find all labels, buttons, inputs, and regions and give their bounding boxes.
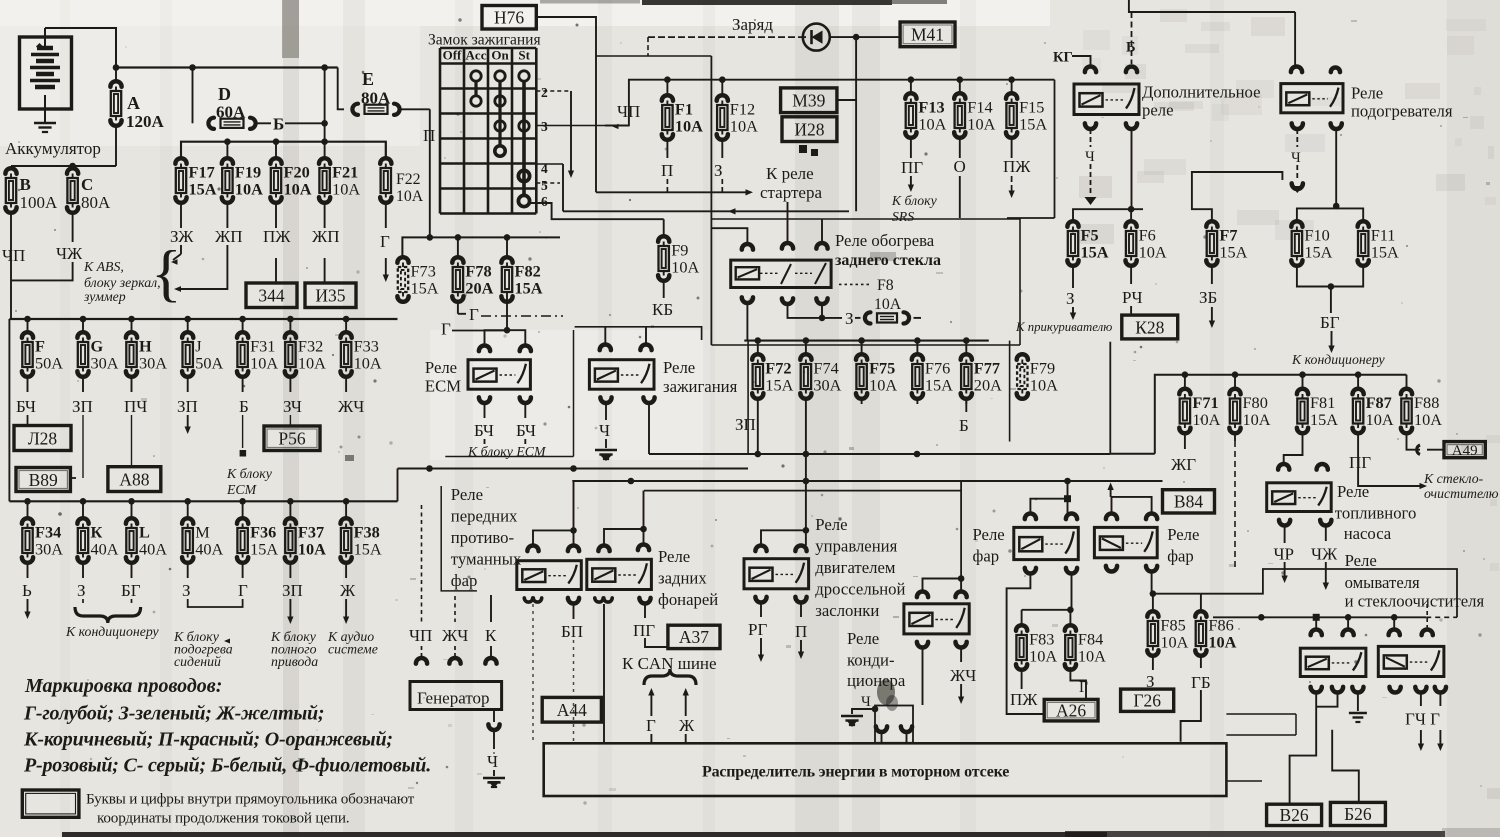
ignition table header Off Acc On St	[443, 48, 531, 63]
svg-text:З: З	[714, 161, 723, 180]
box А37	[668, 625, 720, 648]
svg-text:Распределитель энергии в мотор: Распределитель энергии в моторном отсеке	[702, 764, 1009, 781]
op relay Реле зажигания	[589, 360, 654, 390]
wire ЗП under F72	[757, 404, 759, 454]
frame ЕСМ block	[445, 330, 573, 457]
svg-text:Off: Off	[443, 48, 462, 63]
svg-text:БГ: БГ	[1320, 313, 1340, 332]
label Реле кондиционера	[847, 629, 906, 690]
svg-text:Л28: Л28	[28, 428, 58, 448]
wire diode junction down	[855, 37, 857, 211]
label Маркировка проводов	[24, 675, 222, 697]
svg-text:St: St	[518, 48, 530, 63]
svg-text:Н76: Н76	[494, 8, 524, 28]
label ПЖ А26	[1010, 690, 1038, 709]
ground зажигания	[595, 450, 617, 461]
op relay Реле кондиционера	[904, 604, 969, 634]
relay pin arcs топливного bottom	[1279, 520, 1331, 526]
fuse F75 10А	[856, 341, 867, 404]
wire РГ down	[760, 603, 762, 617]
fuse F71 10А	[1179, 375, 1190, 441]
frame right edge SRS block	[1007, 80, 1055, 218]
svg-text:системе: системе	[328, 642, 378, 657]
bus row1 left	[9, 316, 397, 323]
svg-text:ЧР: ЧР	[1274, 545, 1295, 564]
svg-text:В89: В89	[29, 470, 58, 490]
box А44	[542, 697, 601, 722]
wire КГ to relay pin1	[1072, 56, 1091, 65]
label ЧЖ	[56, 244, 83, 263]
arrow ЧР	[1281, 562, 1287, 583]
label F86 10A	[1208, 616, 1236, 652]
relay pin arcs управления top	[755, 546, 806, 552]
svg-text:Реле: Реле	[425, 358, 457, 377]
label A 120A	[126, 93, 165, 131]
label F10 15A	[1304, 226, 1332, 262]
wire БП down	[573, 604, 575, 619]
note К блоку полного привода	[270, 629, 318, 669]
wire F80 down	[1234, 441, 1236, 570]
note К блоку SRS	[891, 193, 938, 224]
label О under F14	[954, 157, 966, 176]
wire F84 to А26 Г	[1070, 667, 1086, 699]
bus F5 F6	[1073, 206, 1143, 222]
label H	[139, 337, 167, 373]
svg-text:стартера: стартера	[760, 183, 822, 202]
label ЗП under F72	[735, 415, 756, 434]
wire Б under F77	[965, 398, 967, 412]
svg-text:фар: фар	[451, 571, 478, 590]
svg-text:М39: М39	[792, 91, 825, 111]
note К блоку ЕСМ	[467, 444, 547, 459]
svg-text:КГ: КГ	[1053, 50, 1073, 66]
svg-text:ЕСМ: ЕСМ	[425, 377, 461, 396]
wire Ч ground кондиционера	[852, 694, 878, 714]
wire К28 area down	[1109, 342, 1111, 454]
svg-text:Реле: Реле	[847, 629, 879, 648]
label F15	[1019, 98, 1047, 134]
wire задних left pin down	[603, 604, 605, 743]
label F88	[1414, 393, 1442, 429]
wire О down	[959, 176, 961, 218]
marks under И28	[799, 145, 818, 156]
wire БЧ to Л28	[27, 415, 29, 426]
label З near F8	[845, 309, 854, 328]
svg-text:10А: 10А	[1192, 410, 1220, 429]
label Аккумулятор	[5, 139, 101, 158]
label F5 15A	[1081, 226, 1109, 262]
svg-text:конди-: конди-	[847, 651, 895, 670]
wire ЧР down	[1284, 526, 1286, 543]
wire Ч dashed Дополнительное	[1085, 129, 1097, 205]
fuse F87 10А	[1353, 375, 1364, 441]
fuse C 80A	[67, 166, 78, 242]
svg-text:А88: А88	[119, 469, 149, 489]
svg-text:ЗП: ЗП	[282, 581, 303, 600]
fuse F15 15А	[1006, 80, 1017, 158]
label К CAN шине	[622, 654, 717, 673]
fuse F81 15А	[1297, 375, 1308, 441]
note К блоку подогрева сидений	[173, 629, 233, 669]
svg-text:F8: F8	[877, 277, 894, 294]
svg-text:15А: 15А	[1304, 243, 1332, 262]
label Реле управления двигателем дроссельной заслонки	[815, 515, 905, 620]
fuse F7 15A	[1206, 221, 1217, 284]
svg-text:ЧЖ: ЧЖ	[56, 244, 83, 263]
label Реле фар 2	[1167, 525, 1199, 566]
label РГ	[748, 620, 767, 639]
box M41	[900, 22, 955, 47]
box А88	[108, 467, 161, 492]
wire ПГ down	[644, 604, 646, 618]
ignition terminal 2	[536, 85, 571, 100]
label Реле передних противотуманных фар	[451, 485, 522, 590]
label Реле зажигания	[663, 358, 738, 396]
charge indicator lamp (diode)	[803, 24, 830, 51]
svg-text:ПГ: ПГ	[901, 158, 923, 177]
arrow ЗП полного привода	[287, 599, 293, 624]
fuse F13 10А	[905, 80, 916, 158]
arrow ПГ to SRS	[908, 176, 914, 192]
wire фар2 arrow feed	[1107, 483, 1151, 514]
svg-text:дроссельной: дроссельной	[815, 580, 905, 599]
svg-text:D: D	[218, 84, 231, 104]
svg-text:фонарей: фонарей	[658, 590, 718, 609]
fuse F11 15A	[1358, 221, 1369, 271]
arrow РГ	[758, 638, 764, 662]
fuse B 100A	[5, 166, 16, 244]
label F81	[1310, 393, 1338, 429]
relay pin arcs фар2 top	[1106, 514, 1157, 520]
label З under F5	[1066, 289, 1075, 308]
wire to fuse E	[338, 68, 344, 110]
label ПГ under F13	[901, 158, 923, 177]
relay pin arcs подогревателя top	[1291, 67, 1340, 73]
label F6 10A	[1139, 226, 1167, 262]
label ЧР	[1274, 545, 1295, 564]
fuse F1 10A	[662, 80, 673, 158]
relay pin arcs обогрева top	[742, 243, 828, 250]
svg-text:ЖП: ЖП	[312, 227, 340, 246]
svg-text:ЗП: ЗП	[177, 397, 198, 416]
fuse F85 10A	[1147, 594, 1158, 670]
box Распределитель энергии	[544, 743, 1227, 796]
artifact smudge центр	[877, 679, 898, 711]
svg-text:120А: 120А	[126, 112, 165, 131]
label F82 15A	[515, 262, 543, 298]
wire terminal4 down	[562, 164, 564, 211]
fuse F 50А	[22, 319, 33, 392]
svg-text:40А: 40А	[139, 540, 167, 559]
label F36	[250, 523, 278, 559]
label ЧЖ	[1311, 545, 1338, 564]
fuse D 60A	[208, 118, 271, 129]
svg-text:10А: 10А	[1160, 633, 1188, 652]
fuse F88 10А	[1401, 375, 1412, 441]
svg-text:ЧП: ЧП	[409, 626, 432, 645]
svg-text:реле: реле	[1142, 101, 1174, 120]
wire F74 down	[805, 404, 807, 481]
box В89	[16, 468, 70, 492]
svg-text:Г: Г	[646, 716, 656, 735]
arrow К блоку подогрева	[224, 639, 230, 644]
svg-text:80А: 80А	[81, 193, 111, 212]
svg-text:Ч: Ч	[861, 694, 871, 710]
svg-text:ЖЧ: ЖЧ	[442, 626, 468, 645]
svg-text:КБ: КБ	[652, 300, 673, 319]
svg-text:Генератор: Генератор	[417, 689, 490, 708]
label F34	[35, 523, 63, 559]
svg-text:зажигания: зажигания	[663, 377, 738, 396]
box К28	[1122, 315, 1178, 339]
wire РЧ to К28	[1130, 306, 1132, 315]
bus F85 F86	[1153, 593, 1201, 595]
svg-text:On: On	[491, 48, 509, 63]
brace К кондиционеру	[75, 607, 141, 623]
label Ч генератор	[487, 752, 498, 771]
fuse E 80A	[352, 104, 429, 115]
label БЧ left	[474, 421, 494, 440]
arrow Г right	[1437, 693, 1443, 751]
svg-text:10А: 10А	[1243, 410, 1271, 429]
arrow Ж аудио	[343, 599, 349, 624]
svg-text:10А: 10А	[1139, 243, 1167, 262]
svg-text:Е: Е	[362, 69, 374, 89]
label ЗП row1a	[72, 397, 93, 416]
label F9 10A	[671, 241, 699, 277]
label ЖП second	[312, 227, 340, 246]
svg-text:15А: 15А	[515, 279, 543, 298]
wire Г under F78	[458, 305, 479, 324]
label F38	[354, 523, 382, 559]
arrow J down	[185, 415, 191, 434]
svg-text:Буквы и цифры внутри прямоугол: Буквы и цифры внутри прямоугольника обоз…	[86, 791, 415, 808]
label ПЖ	[263, 227, 291, 246]
relay pin arcs управления bottom	[755, 597, 806, 603]
svg-text:М41: М41	[911, 25, 944, 45]
ignition terminal 5	[536, 178, 560, 193]
svg-text:подогревателя: подогревателя	[1351, 102, 1453, 121]
frame right К28 drop	[1009, 341, 1011, 442]
svg-text:сидений: сидений	[174, 654, 221, 669]
label Б node top	[1126, 40, 1136, 56]
node main bus top	[113, 64, 338, 71]
fuse М 40А	[182, 501, 193, 578]
op relay Реле подогревателя	[1281, 84, 1343, 113]
svg-text:З: З	[1066, 289, 1075, 308]
relay pin arcs задних bottom	[595, 598, 651, 604]
wire фар1 pin feed	[1030, 481, 1071, 513]
legend text	[86, 791, 415, 827]
svg-text:30А: 30А	[813, 376, 841, 395]
wire Б26 step	[1332, 730, 1359, 803]
wire задних pin feed	[604, 491, 647, 545]
label F31	[250, 337, 278, 373]
label F8 10A	[874, 277, 902, 313]
label ЧП	[2, 246, 25, 265]
svg-text:БЧ: БЧ	[16, 397, 36, 416]
label БП	[561, 622, 583, 641]
fuse F72 15А	[752, 341, 763, 404]
relay pin arcs обогрева bottom	[742, 297, 828, 304]
svg-text:10А: 10А	[918, 115, 946, 134]
note К ABS блоку зеркал зуммер	[83, 259, 161, 304]
svg-text:15А: 15А	[354, 540, 382, 559]
bus F1 F12	[629, 76, 1055, 126]
arrow БГ down	[1328, 331, 1334, 353]
bus F71 row	[1155, 371, 1407, 453]
wire main y481	[572, 478, 1162, 485]
label РЧ under F6	[1122, 288, 1143, 307]
arrow ГЧ	[1418, 693, 1424, 751]
box Б26	[1330, 802, 1385, 825]
label ЗЖ	[170, 227, 194, 246]
svg-text:Реле: Реле	[1345, 551, 1377, 570]
svg-text:омывателя: омывателя	[1345, 573, 1420, 592]
svg-text:5: 5	[541, 178, 548, 193]
svg-text:А26: А26	[1056, 700, 1086, 720]
svg-text:топливного: топливного	[1335, 504, 1417, 523]
fuse A 120A	[110, 68, 121, 167]
op relay Реле противотуманных фар	[517, 561, 582, 590]
note К прикуривателю	[1015, 320, 1112, 334]
svg-text:фар: фар	[1167, 547, 1194, 566]
label Замок зажигания	[428, 32, 541, 49]
svg-text:Аккумулятор: Аккумулятор	[5, 139, 101, 158]
bus row2 left	[9, 498, 397, 505]
svg-text:ЧП: ЧП	[2, 246, 25, 265]
op relay Реле задних фонарей	[587, 559, 652, 589]
label Реле обогрева заднего стекла	[835, 231, 941, 269]
arrow ПЖ down	[1009, 176, 1015, 198]
wire Ч dashed подогревателя	[1291, 129, 1303, 193]
svg-text:заслонки: заслонки	[815, 601, 879, 620]
svg-text:ПГ: ПГ	[1349, 453, 1371, 472]
wire battery positive to bus	[45, 28, 116, 68]
fuse F79 10A dashed	[1017, 354, 1028, 399]
wire F88 to А49	[1407, 441, 1445, 454]
fuse L 40А	[126, 501, 137, 578]
svg-text:10А: 10А	[298, 540, 326, 559]
svg-text:ПЧ: ПЧ	[124, 397, 147, 416]
label БЧ row1	[16, 397, 36, 416]
wire F10 F11 join	[1297, 271, 1363, 313]
svg-text:ЗП: ЗП	[72, 397, 93, 416]
wire F7 feed	[1192, 172, 1283, 222]
fuse F8 10A horizontal	[855, 312, 921, 323]
fuse F33 10А	[341, 319, 352, 392]
svg-text:ЖП: ЖП	[215, 227, 243, 246]
svg-text:П: П	[661, 161, 673, 180]
label F11 15A	[1371, 226, 1399, 262]
wire противотуманных left pin down dashed	[532, 604, 534, 743]
frame left реле зажигания block	[747, 341, 749, 454]
label ЖЧ генератор	[442, 626, 468, 645]
wire П ignition feed	[429, 109, 431, 237]
svg-text:управления: управления	[815, 537, 897, 556]
wire обогрева pin1 up	[711, 228, 747, 244]
wire зажигания pins up	[605, 327, 646, 344]
bus F10 F11	[1297, 208, 1363, 222]
label Б row1	[239, 397, 249, 416]
wire ЖЧ dashed генератор	[454, 596, 456, 622]
svg-text:15А: 15А	[411, 279, 439, 298]
svg-text:344: 344	[258, 286, 285, 306]
label ЖЧ row1	[338, 397, 364, 416]
wire F85 bus extension right	[1201, 569, 1457, 617]
wire Дополнительное pin2 down	[1131, 129, 1133, 209]
arrow under Г F22	[383, 258, 389, 282]
svg-text:Ч: Ч	[1085, 149, 1095, 165]
label F78 20A	[465, 262, 493, 298]
fuse К 40А	[77, 501, 88, 578]
frame right РЭ lines	[1226, 714, 1296, 735]
label Ж row2	[340, 581, 356, 600]
fuse F73 15A dashed	[397, 257, 408, 302]
label Б under F77	[959, 416, 969, 435]
fuse J 50А	[182, 319, 193, 392]
svg-text:Б: Б	[273, 115, 284, 134]
label F73 15A	[411, 262, 439, 298]
wire dashed to diode	[596, 37, 803, 56]
note К аудио системе	[327, 629, 378, 657]
svg-text:ЖГ: ЖГ	[1171, 455, 1196, 474]
wire central 711	[710, 56, 712, 345]
fuse F77 20А	[961, 341, 972, 404]
label БЧ right	[516, 421, 536, 440]
wire ПЖ to box 344	[275, 258, 277, 283]
svg-text:Ь: Ь	[22, 581, 32, 600]
box А26	[1044, 699, 1098, 721]
wire противотуманных pin feed	[533, 481, 577, 545]
label F17	[189, 163, 217, 199]
relay pin arcs топливного top	[1278, 464, 1328, 470]
svg-text:П: П	[795, 622, 807, 641]
label L	[139, 523, 167, 559]
svg-text:10А: 10А	[675, 117, 703, 136]
wire омывателя1 pins up	[1316, 617, 1348, 629]
svg-text:10А: 10А	[354, 354, 382, 373]
op relay Реле фар 2	[1094, 527, 1157, 557]
label F80	[1243, 393, 1271, 429]
svg-text:А49: А49	[1452, 443, 1478, 459]
op relay Реле омывателя 1	[1300, 648, 1366, 676]
wire кондиционера pin feed	[923, 481, 965, 591]
fuse F20 10А	[270, 142, 281, 228]
fuse F19 10А	[222, 142, 233, 228]
svg-text:ЧП: ЧП	[617, 102, 640, 121]
svg-text:ПЖ: ПЖ	[1010, 690, 1038, 709]
svg-text:10А: 10А	[1078, 647, 1106, 666]
svg-text:К: К	[485, 626, 497, 645]
fuse F86 10A	[1195, 594, 1206, 668]
label легенда цветов строка1	[23, 703, 324, 725]
svg-text:К кондиционеру: К кондиционеру	[1291, 352, 1386, 367]
wire БЧ stubs ЕСМ	[485, 403, 526, 418]
svg-text:10А: 10А	[1208, 633, 1236, 652]
label F75	[869, 359, 897, 395]
svg-text:60А: 60А	[216, 103, 246, 122]
wire Б down F31	[240, 415, 247, 457]
label F83 10A	[1029, 630, 1057, 666]
arrow З down	[1070, 307, 1076, 320]
svg-text:РЧ: РЧ	[1122, 288, 1143, 307]
label З row2a	[77, 581, 86, 600]
fuse H 30А	[126, 319, 137, 392]
wire управления pin feed	[761, 481, 809, 545]
label F76	[925, 359, 953, 395]
svg-text:двигателем: двигателем	[815, 558, 896, 577]
